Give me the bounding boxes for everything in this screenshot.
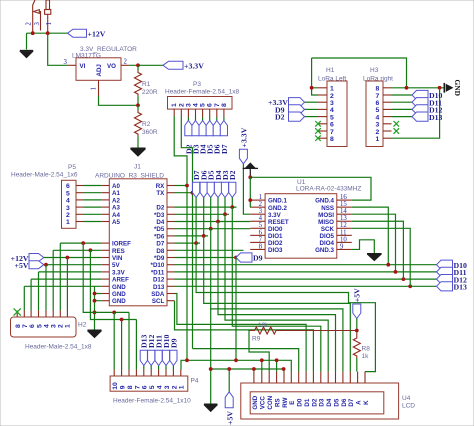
net flag D4 above bus [214, 170, 223, 223]
svg-text:5: 5 [259, 222, 263, 229]
svg-text:TX: TX [156, 190, 165, 197]
svg-text:7: 7 [22, 324, 29, 328]
net flag D13 right edge [437, 282, 468, 292]
svg-text:A: A [356, 400, 363, 405]
svg-text:U4: U4 [402, 395, 411, 402]
wire D11 row [175, 271, 437, 273]
svg-text:10: 10 [340, 236, 347, 243]
svg-text:DIO2: DIO2 [268, 240, 283, 247]
svg-text:5: 5 [330, 114, 334, 121]
wire D2 row [175, 206, 237, 208]
svg-text:1: 1 [46, 22, 53, 25]
wire D9 net joins bus [235, 258, 237, 361]
svg-text:15: 15 [340, 201, 347, 208]
net flag D10 right edge [437, 260, 468, 270]
net flag D12 right edge [437, 275, 468, 285]
junction [209, 367, 213, 371]
svg-text:6: 6 [29, 324, 36, 328]
svg-text:2: 2 [58, 324, 65, 328]
junction [234, 358, 238, 362]
svg-text:4: 4 [43, 324, 50, 328]
svg-text:D2: D2 [228, 170, 237, 180]
svg-text:D5: D5 [333, 398, 340, 406]
svg-text:RS: RS [275, 398, 282, 407]
wire MOSI to D12 [352, 214, 396, 272]
svg-text:11: 11 [340, 229, 347, 236]
svg-text:*D3: *D3 [154, 212, 165, 219]
net flag D12 on P4.5 [147, 334, 156, 369]
svg-text:A5: A5 [112, 219, 120, 226]
svg-text:RES: RES [112, 248, 125, 255]
power jack X1 [26, 0, 54, 33]
svg-text:A1: A1 [112, 190, 120, 197]
ground [20, 51, 33, 58]
svg-text:D7: D7 [348, 398, 355, 406]
svg-text:D2: D2 [311, 398, 318, 406]
svg-text:13: 13 [340, 215, 347, 222]
svg-text:VI: VI [80, 63, 86, 70]
net flag D3 above bus [221, 170, 230, 216]
wire H3.1 to GND rail [392, 88, 440, 138]
svg-text:*D5: *D5 [154, 226, 165, 233]
svg-text:Header-Female-2.54_1x8: Header-Female-2.54_1x8 [165, 89, 239, 96]
svg-text:A4: A4 [112, 212, 120, 219]
svg-text:9: 9 [340, 243, 344, 250]
wire NSS to D13 [352, 207, 389, 265]
resistor R8 1k [353, 331, 370, 372]
svg-text:+3.3V: +3.3V [184, 62, 204, 71]
junction [81, 241, 85, 245]
ground arrow up at U1 [243, 163, 258, 177]
svg-text:1: 1 [91, 87, 98, 90]
svg-text:A0: A0 [112, 183, 120, 190]
supply flag +5V at LCD [225, 392, 234, 425]
svg-text:D9: D9 [169, 338, 178, 348]
resistor R2 360R [135, 105, 158, 148]
wire MISO to D11 [352, 221, 404, 279]
svg-text:D4: D4 [156, 219, 164, 226]
wire SCL to LCD D2 [175, 301, 314, 372]
svg-text:1: 1 [171, 103, 178, 107]
wire IOREF row [60, 243, 102, 310]
svg-text:VIN: VIN [112, 255, 123, 262]
svg-text:RW: RW [282, 397, 289, 407]
net flag D9 on P4.2 [169, 338, 178, 369]
svg-text:5: 5 [36, 324, 43, 328]
net flag D11 on H3.6 [392, 98, 443, 108]
ground below H2 [88, 330, 102, 337]
wire P4.9 [121, 320, 123, 370]
svg-text:GND.3: GND.3 [315, 247, 334, 254]
svg-text:4: 4 [259, 215, 263, 222]
wire TX to LCD D0 [193, 349, 299, 372]
svg-text:10: 10 [112, 382, 119, 390]
svg-text:3.3V: 3.3V [268, 212, 282, 219]
net flag D4 on P3.5 [199, 121, 208, 155]
junction [227, 367, 231, 371]
junction [248, 175, 252, 179]
net flag D10 on P4.3 [162, 334, 171, 369]
no-connect H3.3 [394, 121, 400, 127]
wire P4.7 [135, 320, 137, 370]
svg-text:R1: R1 [142, 81, 151, 88]
svg-text:K: K [363, 400, 370, 405]
svg-text:6: 6 [66, 183, 70, 190]
svg-text:3.3V: 3.3V [112, 269, 126, 276]
svg-text:DIO4: DIO4 [320, 240, 335, 247]
svg-text:1: 1 [330, 86, 334, 93]
svg-text:GND.4: GND.4 [315, 198, 334, 205]
svg-text:D7: D7 [220, 144, 229, 154]
wire D3 net to LCD D4 [225, 214, 328, 371]
svg-text:MISO: MISO [318, 219, 334, 226]
wire D9 row [175, 257, 237, 259]
wire VO to +3.3V [129, 64, 163, 66]
net flag D2 on H1.5 [275, 112, 318, 122]
svg-text:2: 2 [376, 129, 380, 136]
svg-text:+12V: +12V [88, 29, 106, 38]
svg-text:+5V: +5V [225, 411, 234, 425]
ground [131, 148, 146, 156]
wire RX to LCD E [187, 360, 291, 371]
svg-text:DIO5: DIO5 [320, 233, 335, 240]
wire D3 row [175, 213, 230, 215]
net flag D5 above bus [207, 170, 216, 230]
svg-text:8: 8 [15, 324, 22, 328]
svg-text:ADJ: ADJ [96, 64, 103, 77]
net flag D13 on H3.4 [392, 112, 443, 122]
svg-text:NSS: NSS [321, 205, 334, 212]
wire P3.1 RX [174, 116, 187, 360]
svg-text:A2: A2 [112, 197, 120, 204]
supply flag +3.3V [163, 61, 204, 70]
wire D4 row to U1 RESET [175, 221, 251, 223]
net flag D7 above bus [192, 170, 201, 245]
junction [93, 292, 97, 296]
wire D10 row [175, 264, 437, 266]
wire GND line to LCD [211, 369, 284, 372]
junction [402, 277, 406, 281]
wire H3.8 to GND [392, 87, 445, 89]
svg-text:6: 6 [376, 100, 380, 107]
wire drop to LCD RS [276, 360, 278, 371]
supply flag +5V left [15, 261, 44, 270]
svg-text:5: 5 [376, 107, 380, 114]
svg-text:D9: D9 [253, 254, 263, 263]
wire RES row [53, 250, 102, 310]
svg-text:RX: RX [156, 183, 165, 190]
junction [252, 367, 256, 371]
ground below P4 [204, 404, 217, 411]
net flag D9 on H1.4 [275, 105, 318, 115]
svg-text:AREF: AREF [112, 277, 129, 284]
wire D4 net to LCD D5 [218, 222, 336, 372]
svg-text:4: 4 [193, 103, 200, 107]
svg-text:3: 3 [259, 208, 263, 215]
net flag +3.3V on H1.3 [268, 98, 318, 108]
net flag D10 on H3.7 [392, 90, 443, 100]
wire R9 to LCD CON [249, 331, 269, 372]
svg-text:GND.2: GND.2 [268, 205, 287, 212]
svg-text:D2: D2 [275, 113, 285, 122]
junction [136, 63, 140, 67]
svg-text:D2: D2 [156, 205, 164, 212]
svg-text:+5V: +5V [15, 261, 29, 270]
svg-text:7: 7 [214, 103, 221, 107]
net flag D5 on P3.6 [206, 121, 215, 155]
net flag D7 on P3.8 [220, 121, 229, 155]
svg-text:1: 1 [376, 136, 380, 143]
svg-text:2: 2 [259, 201, 263, 208]
connector H2 Header-Male-2.54_1x8 [11, 311, 92, 351]
svg-text:4: 4 [66, 198, 70, 205]
svg-text:SCL: SCL [152, 298, 165, 305]
svg-text:6: 6 [259, 229, 263, 236]
net flag D12 on H3.5 [392, 105, 443, 115]
wire jack to regulator VI [48, 33, 69, 65]
svg-text:1: 1 [259, 194, 262, 201]
net flag D9 mid [234, 253, 263, 263]
wire RX row [175, 185, 188, 187]
svg-text:R2: R2 [142, 121, 151, 128]
svg-text:3: 3 [51, 324, 58, 328]
svg-text:H2: H2 [78, 322, 87, 329]
wire IOREF branch to P4 [83, 243, 129, 312]
svg-text:2: 2 [330, 93, 334, 100]
resistor R1 220R [135, 65, 158, 105]
connector P5 Header-Male-2.54_1x6 [11, 164, 84, 228]
svg-text:2: 2 [124, 59, 128, 66]
wire GND branch down [210, 309, 212, 404]
resistor R9 10k [249, 322, 357, 343]
wire P3.2 TX [181, 116, 192, 349]
net flag D13 on P4.6 [140, 334, 149, 369]
junction [93, 299, 97, 303]
svg-text:+5V: +5V [353, 288, 362, 302]
net flag D6 on P3.7 [213, 121, 222, 155]
svg-text:4: 4 [376, 114, 380, 121]
svg-text:3: 3 [376, 122, 380, 129]
connector H3 LoRa right [363, 67, 393, 147]
wire D12 row [175, 278, 437, 280]
wire D7 net to LCD K [196, 243, 375, 372]
svg-text:VO: VO [107, 63, 116, 70]
wire P4.10 [113, 312, 115, 369]
connector H1 LoRa Left [318, 67, 347, 147]
junction [93, 311, 97, 315]
supply flag +3.3V rotated [239, 127, 248, 163]
svg-text:H3: H3 [370, 67, 379, 74]
svg-text:2: 2 [66, 212, 70, 219]
svg-text:D0: D0 [297, 398, 304, 406]
junction [386, 263, 390, 267]
svg-text:12: 12 [340, 222, 347, 229]
svg-text:7: 7 [259, 236, 263, 243]
svg-text:7: 7 [134, 385, 141, 389]
svg-text:4: 4 [330, 107, 334, 114]
svg-text:DIO0: DIO0 [268, 226, 283, 233]
net flag D3 on P3.4 [191, 121, 200, 155]
junction [394, 270, 398, 274]
connector P4 Header-Female-2.54_1x10 [110, 370, 199, 405]
wire SCK to D10 [352, 228, 410, 286]
no-connect H3.2 [394, 128, 400, 134]
supply flag +5V right [353, 288, 362, 331]
wire TX row [175, 192, 193, 194]
svg-text:Header-Male-2.54_1x6: Header-Male-2.54_1x6 [11, 172, 78, 179]
wire P5 to J1 A0-A5 [84, 186, 102, 222]
svg-text:*D11: *D11 [151, 269, 165, 276]
svg-text:ARDUINO_R3_SHIELD: ARDUINO_R3_SHIELD [95, 172, 164, 179]
svg-text:7: 7 [376, 93, 380, 100]
no-connect H1.6 [315, 121, 321, 127]
wire AREF row to H2.6 [31, 279, 102, 310]
svg-text:D12: D12 [153, 277, 165, 284]
svg-text:VCC: VCC [260, 396, 267, 410]
svg-text:14: 14 [340, 208, 347, 215]
svg-text:7: 7 [330, 129, 334, 136]
junction [44, 263, 48, 267]
svg-text:9: 9 [120, 385, 127, 389]
junction [120, 318, 124, 322]
wire GND row to H2.7 [24, 286, 102, 310]
junction [275, 358, 279, 362]
wire D2 net to LCD D3 [232, 207, 320, 372]
net flag D11 on P4.4 [155, 335, 164, 370]
wire H1.1 H1.2 to top rail [312, 58, 318, 95]
svg-text:DIO1: DIO1 [268, 233, 283, 240]
junction [438, 86, 442, 90]
svg-text:6: 6 [330, 122, 334, 129]
svg-text:+3.3V: +3.3V [239, 127, 248, 147]
junction [310, 86, 314, 90]
junction [355, 329, 359, 333]
junction [405, 86, 409, 90]
wire GND bundle [95, 286, 102, 330]
svg-text:GND: GND [112, 291, 126, 298]
no-connect H1.7 [315, 128, 321, 134]
net flag D2 above bus [228, 170, 237, 209]
net flag D6 above bus [200, 170, 209, 237]
wire D8 row [175, 249, 244, 251]
junction [282, 367, 286, 371]
svg-text:R9: R9 [252, 336, 261, 343]
wire +5V stem [228, 369, 230, 392]
junction [408, 284, 412, 288]
svg-text:5: 5 [200, 103, 207, 107]
svg-text:D3: D3 [319, 398, 326, 406]
svg-text:8: 8 [330, 136, 334, 143]
junction RX [185, 184, 189, 188]
wire +3.3V to U1 pin3 [243, 164, 250, 214]
svg-text:E: E [289, 401, 296, 405]
wire GND top rail over U1 [250, 177, 371, 200]
svg-text:3: 3 [34, 22, 41, 26]
wire H2.4 [45, 265, 47, 311]
wire D7 row [175, 242, 201, 244]
svg-text:GND: GND [112, 284, 126, 291]
svg-text:3: 3 [330, 100, 334, 107]
svg-text:Header-Female-2.54_1x10: Header-Female-2.54_1x10 [113, 398, 191, 405]
svg-text:SDA: SDA [151, 291, 165, 298]
svg-text:16: 16 [340, 194, 347, 201]
svg-text:D6: D6 [341, 398, 348, 406]
svg-text:3: 3 [164, 385, 171, 389]
no-connect H1.8 [315, 135, 321, 141]
svg-text:4: 4 [157, 385, 164, 389]
svg-text:R8: R8 [362, 346, 371, 353]
display U4 LCD [241, 372, 416, 419]
svg-text:LCD: LCD [402, 403, 415, 410]
shield J1 ARDUINO_R3_SHIELD [95, 164, 175, 306]
svg-text:DIO3: DIO3 [268, 247, 283, 254]
svg-text:5: 5 [149, 385, 156, 389]
wire D5 row to U1 DIO0 [175, 228, 251, 230]
svg-text:2: 2 [26, 22, 33, 26]
junction [185, 358, 189, 362]
svg-text:IOREF: IOREF [112, 241, 131, 248]
wire RES branch to P4 [90, 250, 136, 319]
svg-text:D13: D13 [454, 283, 468, 292]
svg-text:*D10: *D10 [151, 262, 165, 269]
svg-text:D13: D13 [429, 113, 443, 122]
svg-text:D13: D13 [153, 284, 165, 291]
wire D6 row [175, 235, 209, 237]
svg-text:GND.1: GND.1 [268, 198, 287, 205]
ground GND right [444, 80, 462, 96]
wire top rail [312, 58, 407, 88]
svg-text:D1: D1 [304, 398, 311, 406]
svg-text:GND: GND [252, 395, 259, 409]
svg-text:D7: D7 [156, 241, 164, 248]
junction [89, 248, 93, 252]
net flag D11 right edge [437, 267, 467, 277]
svg-text:D4: D4 [326, 398, 333, 406]
svg-text:Header-Male-2.54_1x8: Header-Male-2.54_1x8 [25, 344, 92, 351]
svg-text:CON: CON [267, 395, 274, 409]
svg-text:8: 8 [221, 103, 228, 107]
svg-text:P5: P5 [68, 164, 76, 171]
svg-text:8: 8 [127, 385, 134, 389]
junction [112, 311, 116, 315]
supply flag +12V left [11, 254, 44, 263]
wire D13 row [175, 285, 437, 287]
supply flag +12V [68, 29, 106, 38]
junction [248, 198, 252, 202]
svg-text:8: 8 [259, 243, 263, 250]
connector P3 Header-Female-2.54_1x8 [165, 81, 239, 121]
svg-text:P4: P4 [191, 378, 199, 385]
svg-text:1: 1 [66, 219, 70, 226]
svg-text:RESET: RESET [268, 219, 289, 226]
wire 3.3V row to H2.5 [39, 272, 102, 311]
svg-text:220R: 220R [142, 89, 158, 96]
wire VIN row [44, 257, 102, 259]
wire P4.8 [128, 312, 130, 369]
net flag D2 on P3.3 [184, 121, 193, 155]
svg-text:D8: D8 [156, 248, 164, 255]
svg-text:5: 5 [66, 190, 70, 197]
wire P4.1 [181, 360, 187, 369]
svg-text:*D9: *D9 [154, 255, 165, 262]
junction [260, 358, 264, 362]
no-connect H2.8 [14, 308, 21, 315]
junction [46, 31, 50, 35]
ground arrow down at U1 GND.3 [367, 254, 382, 261]
regulator IC1 LM317TG [64, 46, 138, 96]
junction [66, 256, 70, 260]
svg-text:A3: A3 [112, 205, 120, 212]
